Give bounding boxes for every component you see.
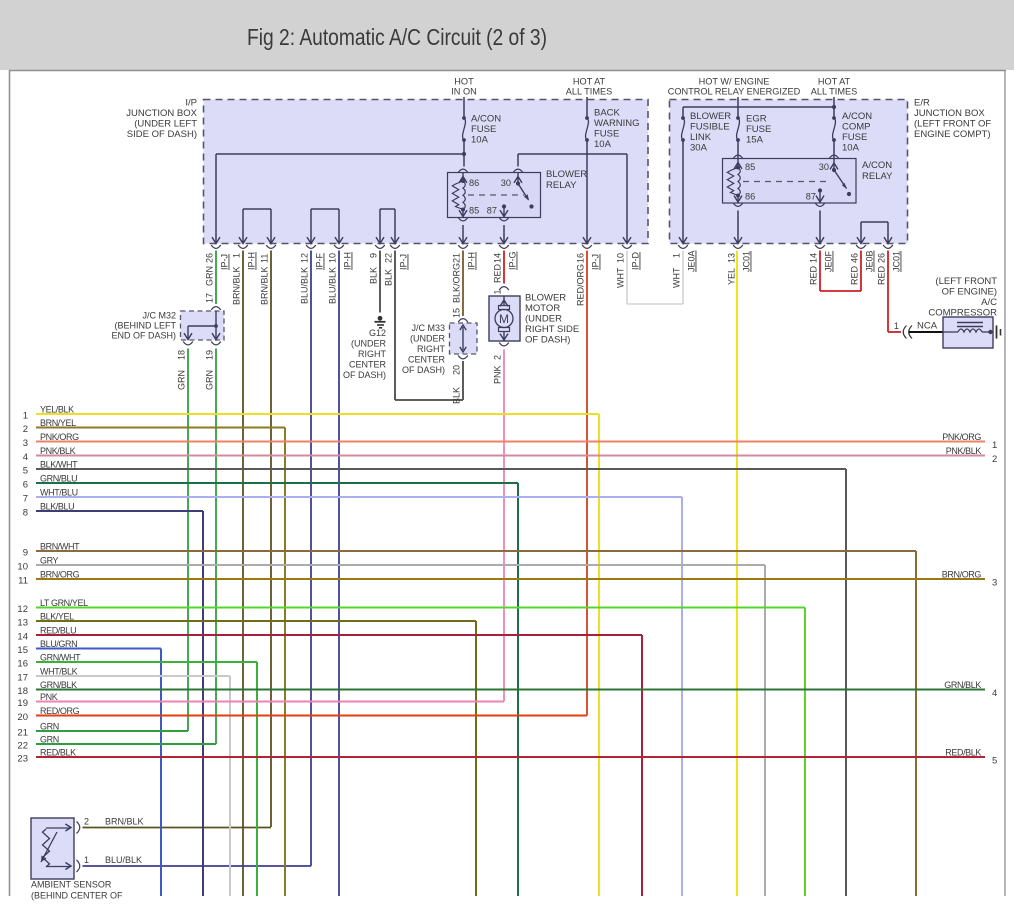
svg-text:RED: RED (493, 263, 503, 283)
relay U1 BLOWER RELAY box (448, 173, 541, 218)
svg-text:A/C: A/C (981, 297, 997, 308)
svg-text:46: 46 (850, 253, 860, 263)
I/P internal link pins 9-22 (379, 209, 381, 244)
svg-text:WHT/BLK: WHT/BLK (40, 667, 78, 677)
connector bump at x=395 (390, 245, 400, 248)
I/P internal link pins 12-10 (310, 209, 312, 244)
diagram frame top border (9, 70, 1006, 72)
node at E/R feed (832, 105, 836, 109)
svg-text:20: 20 (17, 712, 28, 723)
svg-text:RED: RED (850, 265, 860, 285)
relay 30 pivot node (516, 181, 520, 185)
svg-text:26: 26 (877, 253, 887, 263)
wire back warning fuse to pin 16 (586, 140, 588, 244)
acon relay switch contact node (847, 192, 851, 196)
svg-text:YEL/BLK: YEL/BLK (40, 405, 74, 415)
svg-text:BLU/BLK: BLU/BLK (105, 855, 142, 865)
wire row 17 WHT/BLK (36, 675, 230, 677)
svg-text:COMP: COMP (842, 122, 871, 133)
relay switch blade (518, 184, 529, 201)
svg-text:BACK: BACK (594, 108, 621, 119)
svg-text:ENGINE COMPT): ENGINE COMPT) (914, 129, 991, 140)
M32 pin 19 bump (211, 342, 221, 345)
svg-text:BLU/BLK: BLU/BLK (300, 267, 310, 304)
connector bump at x=504 (499, 245, 509, 248)
svg-text:FUSE: FUSE (471, 124, 496, 135)
wire fusible link to pin 1 (682, 140, 684, 244)
svg-text:J/C M32: J/C M32 (142, 311, 176, 321)
connector bump at x=311 (306, 245, 316, 248)
svg-text:PNK/BLK: PNK/BLK (946, 446, 982, 456)
svg-text:PNK/BLK: PNK/BLK (40, 446, 76, 456)
svg-text:IP-J: IP-J (220, 254, 230, 270)
svg-text:1: 1 (84, 855, 89, 865)
svg-text:12: 12 (300, 253, 310, 263)
wire PNK motor to row 19 (503, 350, 505, 702)
svg-text:BRN/WHT: BRN/WHT (40, 542, 80, 552)
svg-text:JE0A: JE0A (687, 250, 697, 272)
relay 87 node and exit arrow (502, 204, 506, 208)
wire row 19 PNK (36, 701, 504, 703)
svg-text:2: 2 (23, 424, 28, 435)
diagram frame right border (1004, 71, 1006, 897)
wire feed to blower fusible link (683, 106, 834, 108)
svg-text:16: 16 (17, 659, 28, 670)
M32 pin 17 bump (211, 307, 221, 310)
svg-text:PNK/ORG: PNK/ORG (40, 432, 79, 442)
wire feed HOT AT ALL TIMES (E/R) (833, 97, 835, 107)
svg-text:11: 11 (260, 254, 270, 263)
svg-text:9: 9 (23, 548, 28, 559)
svg-text:BLK/BLU: BLK/BLU (40, 502, 74, 512)
wire node down to relay 86 (463, 154, 465, 167)
svg-text:RED: RED (877, 265, 887, 285)
svg-text:BLOWER: BLOWER (546, 169, 587, 180)
svg-text:BRN/YEL: BRN/YEL (40, 418, 76, 428)
wire relay 87 to pin 14 (503, 225, 505, 244)
svg-text:13: 13 (17, 618, 28, 629)
motor pin 2 bump (499, 343, 509, 346)
M33 internal double arrow (462, 327, 464, 350)
I/P junction box (204, 100, 649, 244)
wire BLK pin 9 to ground (379, 251, 381, 313)
svg-text:RELAY: RELAY (862, 171, 893, 182)
acon relay 86 exit arrow (737, 196, 739, 204)
I/P exit arrow at x=463 (459, 237, 467, 243)
svg-text:17: 17 (17, 673, 28, 684)
connector bump at x=339 (334, 245, 344, 248)
wire node to pin 26 drop (216, 153, 464, 155)
wire row 21 GRN (36, 730, 188, 732)
wire RED pin 26 to compressor (887, 251, 889, 333)
sensor AMBIENT SENSOR box (31, 818, 74, 879)
svg-text:10A: 10A (842, 143, 860, 154)
header bar (0, 0, 1014, 70)
relay 30 arrow (517, 173, 519, 184)
svg-text:GRN/BLU: GRN/BLU (40, 474, 77, 484)
svg-text:JC01: JC01 (892, 251, 902, 272)
wire row 15 BLU/GRN (36, 648, 161, 650)
connector bump at x=380 (375, 245, 385, 248)
relay 85 bump below (458, 218, 468, 221)
svg-text:IN ON: IN ON (451, 87, 477, 97)
I/P exit arrow at x=380 (376, 237, 384, 243)
svg-text:26: 26 (205, 253, 215, 263)
connector bump at x=683 (678, 245, 688, 248)
svg-text:ALL TIMES: ALL TIMES (811, 87, 857, 97)
svg-text:JUNCTION BOX: JUNCTION BOX (914, 108, 985, 119)
svg-text:85: 85 (469, 206, 479, 216)
svg-text:10: 10 (328, 253, 338, 263)
wire BLK to compressor (909, 331, 943, 333)
wire BLK pin 22 to J/C M33 pin 20 (394, 251, 396, 401)
acon relay 30 arrow (833, 159, 835, 171)
svg-text:I/P: I/P (185, 98, 197, 109)
I/P exit arrow at x=311 (307, 237, 315, 243)
I/P internal link pins 1-11 (242, 209, 244, 244)
svg-text:86: 86 (469, 178, 479, 188)
svg-text:RED/BLU: RED/BLU (40, 626, 76, 636)
wire relay 30 to pin 10 WHT (517, 154, 519, 167)
acon relay switch blade (834, 170, 847, 189)
svg-text:13: 13 (727, 253, 737, 263)
E/R internal link pins 46-26 (860, 222, 862, 244)
wire row 9 BRN/WHT (36, 550, 916, 552)
svg-text:3: 3 (23, 438, 28, 449)
wire row 7 WHT/BLU (36, 496, 682, 498)
wire row 1 YEL/BLK (36, 413, 599, 415)
acon relay coil (736, 166, 740, 170)
svg-text:(UNDER: (UNDER (525, 314, 562, 325)
svg-text:HOT AT: HOT AT (573, 77, 606, 87)
wire row 3 PNK/ORG (36, 441, 985, 443)
svg-text:GRN: GRN (205, 370, 215, 390)
wire row 23 RED/BLK (36, 756, 985, 758)
wire BLU/BLK sensor pin 1 to pin 12 (83, 865, 312, 867)
svg-text:22: 22 (17, 741, 28, 752)
svg-text:IP-F: IP-F (315, 252, 325, 270)
acon relay 85 bump (733, 155, 743, 158)
fuse A/CON COMP FUSE 10A (832, 116, 836, 120)
svg-text:JUNCTION BOX: JUNCTION BOX (126, 108, 197, 119)
E/R exit arrow at x=861 (857, 237, 865, 243)
svg-text:COMPRESSOR: COMPRESSOR (928, 308, 997, 319)
E/R junction box (670, 100, 908, 244)
svg-text:M: M (499, 312, 509, 326)
svg-text:A/CON: A/CON (862, 160, 892, 171)
svg-text:WHT: WHT (672, 267, 682, 288)
svg-text:YEL: YEL (727, 268, 737, 285)
svg-text:87: 87 (487, 206, 497, 216)
svg-text:GRN/BLK: GRN/BLK (40, 680, 77, 690)
svg-text:11: 11 (18, 576, 28, 587)
I/P exit arrow at x=627 (623, 237, 631, 243)
wire BLU/BLK pin 12 to ambient sensor (310, 251, 312, 867)
wire BLK/ORG pin 21 to J/C M33 pin 15 (462, 251, 464, 317)
wire row 2 BRN/YEL (36, 427, 285, 429)
svg-text:86: 86 (745, 192, 755, 202)
svg-text:IP-H: IP-H (343, 252, 353, 270)
svg-text:BRN/BLK: BRN/BLK (260, 266, 270, 305)
acon relay 86 bump below (733, 203, 743, 206)
svg-text:7: 7 (23, 494, 28, 505)
relay 30 connector bump (513, 169, 523, 172)
svg-text:FUSE: FUSE (594, 129, 619, 140)
fuse BACK WARNING FUSE 10A (585, 116, 589, 120)
wire row 6 GRN/BLU (36, 482, 518, 484)
wire row 12 LT GRN/YEL (36, 607, 805, 609)
motor internal symbol (503, 296, 505, 306)
svg-text:1: 1 (23, 411, 28, 422)
acon relay 30 bump (829, 155, 839, 158)
svg-text:RED/ORG: RED/ORG (40, 706, 80, 716)
svg-text:CENTER: CENTER (408, 355, 446, 365)
acon relay 30 pivot node (832, 168, 836, 172)
svg-text:RIGHT: RIGHT (417, 344, 446, 354)
svg-text:RED/ORG: RED/ORG (576, 264, 586, 306)
junction connector J/C M32 box (181, 311, 225, 340)
svg-text:2: 2 (84, 817, 89, 827)
svg-text:E/R: E/R (914, 98, 930, 109)
svg-text:BLK/WHT: BLK/WHT (40, 460, 78, 470)
fuse A/CON FUSE 10A (462, 116, 466, 120)
svg-text:BLK: BLK (384, 269, 394, 286)
svg-text:1: 1 (992, 440, 997, 451)
wire row 18 GRN/BLK (36, 689, 985, 691)
svg-text:CONTROL RELAY ENERGIZED: CONTROL RELAY ENERGIZED (668, 87, 801, 97)
svg-text:4: 4 (23, 452, 28, 463)
wire row 4 PNK/BLK (36, 455, 985, 457)
I/P exit arrow at x=504 (500, 237, 508, 243)
wire GRN M32 pin 19 to row 22 (215, 349, 217, 745)
svg-text:BLK: BLK (369, 267, 379, 284)
connector bump at x=587 (582, 245, 592, 248)
compressor case ground bars (996, 326, 998, 339)
svg-text:SIDE OF DASH): SIDE OF DASH) (127, 129, 197, 140)
svg-text:OF DASH): OF DASH) (402, 365, 445, 375)
svg-text:END OF DASH): END OF DASH) (111, 331, 176, 341)
wire EGR fuse to relay 85 (737, 140, 739, 159)
connector bump at x=861 (856, 245, 866, 248)
svg-text:RELAY: RELAY (546, 180, 577, 191)
M32 internal wire (215, 311, 217, 338)
svg-text:8: 8 (23, 508, 28, 519)
connector bump at x=216 (211, 245, 221, 248)
compressor connector bump (903, 326, 906, 339)
svg-text:A/CON: A/CON (842, 111, 872, 122)
svg-text:BLU/BLK: BLU/BLK (328, 267, 338, 304)
I/P exit arrow at x=587 (583, 237, 591, 243)
svg-text:A/CON: A/CON (471, 114, 501, 125)
svg-text:GRN: GRN (177, 370, 187, 390)
svg-text:10: 10 (17, 562, 28, 573)
motor M1 BLOWER MOTOR box (489, 296, 520, 341)
svg-text:18: 18 (177, 350, 187, 360)
svg-text:14: 14 (17, 632, 28, 643)
motor pin 1 bump (499, 287, 509, 290)
relay 85 exit arrow (462, 210, 464, 218)
E/R exit arrow at x=820 (816, 237, 824, 243)
node at fuse output (462, 152, 466, 156)
E/R exit arrow at x=738 (734, 237, 742, 243)
wire E/R feed to A/CON COMP fuse (833, 107, 835, 118)
wire fuse to junction node (463, 140, 465, 154)
svg-text:HOT: HOT (454, 77, 474, 87)
svg-text:10: 10 (616, 253, 626, 263)
svg-text:J/C M33: J/C M33 (411, 323, 445, 333)
svg-text:AMBIENT SENSOR: AMBIENT SENSOR (31, 880, 112, 890)
M33 pin 20 bump (458, 356, 468, 359)
svg-text:FUSIBLE: FUSIBLE (690, 122, 730, 133)
svg-text:4: 4 (992, 688, 997, 699)
svg-text:BRN/ORG: BRN/ORG (40, 570, 80, 580)
wire BLU/BLK pin 10 down (338, 251, 340, 897)
wire row 10 GRY (36, 564, 765, 566)
svg-text:BRN/BLK: BRN/BLK (105, 817, 144, 827)
svg-text:FUSE: FUSE (842, 132, 867, 143)
svg-text:9: 9 (369, 253, 379, 258)
svg-text:85: 85 (745, 162, 755, 172)
svg-text:5: 5 (992, 756, 997, 767)
acon relay 87 bump below (815, 203, 825, 206)
I/P exit arrow at x=271 (267, 237, 275, 243)
svg-text:(LEFT FRONT: (LEFT FRONT (935, 276, 997, 287)
connector bump at x=243 (238, 245, 248, 248)
relay switch contact node (529, 204, 533, 208)
svg-text:OF DASH): OF DASH) (343, 370, 386, 380)
relay U2 A/CON RELAY box (723, 159, 857, 204)
svg-text:1: 1 (232, 253, 242, 258)
svg-text:LT GRN/YEL: LT GRN/YEL (40, 598, 88, 608)
svg-text:LINK: LINK (690, 132, 712, 143)
acon relay 87 node and exit arrow (818, 188, 822, 192)
connector bump at x=888 (883, 245, 893, 248)
relay 86 arrow (462, 173, 464, 182)
svg-text:2: 2 (493, 355, 503, 360)
svg-text:IP-D: IP-D (631, 251, 641, 270)
svg-text:EGR: EGR (746, 114, 767, 125)
E/R exit arrow at x=683 (679, 237, 687, 243)
svg-text:16: 16 (576, 253, 586, 263)
wire feed to BACK WARNING fuse (586, 97, 588, 118)
wire acon relay 87 to pin 14 (819, 211, 821, 244)
wire row 8 BLK/BLU (36, 510, 203, 512)
svg-text:BLU/GRN: BLU/GRN (40, 639, 77, 649)
svg-text:BLOWER: BLOWER (690, 111, 731, 122)
svg-text:14: 14 (809, 253, 819, 263)
svg-text:RIGHT SIDE: RIGHT SIDE (525, 324, 579, 335)
svg-text:JC01: JC01 (742, 251, 752, 272)
svg-text:OF ENGINE): OF ENGINE) (942, 287, 997, 298)
svg-text:3: 3 (992, 578, 997, 589)
wire row 5 BLK/WHT (36, 468, 846, 470)
wire RED/ORG pin 16 to row 20 (586, 251, 588, 716)
svg-text:HOT AT: HOT AT (818, 77, 851, 87)
svg-text:19: 19 (205, 350, 215, 360)
svg-text:GRY: GRY (40, 556, 59, 566)
acon relay armature dashed link (743, 181, 830, 183)
ground G12 (378, 316, 383, 321)
relay armature dashed link (468, 194, 524, 196)
svg-text:GRN/WHT: GRN/WHT (40, 653, 81, 663)
svg-text:G12: G12 (369, 328, 386, 338)
svg-text:Fig 2: Automatic A/C Circuit (: Fig 2: Automatic A/C Circuit (2 of 3) (247, 24, 547, 50)
svg-text:RIGHT: RIGHT (358, 349, 387, 359)
svg-text:RED/BLK: RED/BLK (40, 748, 76, 758)
svg-text:IP-G: IP-G (508, 251, 518, 270)
svg-text:WARNING: WARNING (594, 118, 640, 129)
wire BRN/BLK pin 1 down (242, 251, 244, 897)
wire feed HOT W/ENGINE to EGR fuse (737, 97, 739, 118)
svg-text:21: 21 (17, 728, 28, 739)
wire row 22 GRN (36, 743, 216, 745)
sensor pin 1 bump (77, 860, 80, 872)
svg-text:JE0F: JE0F (824, 250, 834, 272)
svg-text:BRN/BLK: BRN/BLK (232, 266, 242, 305)
svg-text:23: 23 (17, 754, 28, 765)
wire acon relay 86 to pin 13 (737, 211, 739, 244)
sensor internal leads (46, 827, 70, 829)
svg-text:WHT/BLU: WHT/BLU (40, 488, 78, 498)
I/P exit arrow at x=216 (212, 237, 220, 243)
svg-text:(UNDER LEFT: (UNDER LEFT (134, 119, 197, 130)
svg-text:BLK/YEL: BLK/YEL (40, 612, 74, 622)
svg-text:RED/BLK: RED/BLK (945, 748, 981, 758)
svg-text:6: 6 (23, 480, 28, 491)
svg-text:GRN: GRN (40, 735, 59, 745)
connector bump at x=738 (733, 245, 743, 248)
sensor pin 2 bump (77, 822, 80, 834)
compressor box A/C COMPRESSOR (943, 317, 993, 348)
svg-text:12: 12 (17, 604, 28, 615)
svg-text:BRN/ORG: BRN/ORG (942, 570, 982, 580)
svg-text:BLK/ORG: BLK/ORG (452, 263, 462, 303)
svg-text:FUSE: FUSE (746, 124, 771, 135)
svg-text:5: 5 (23, 466, 28, 477)
svg-text:1: 1 (493, 289, 503, 294)
svg-text:22: 22 (384, 253, 394, 263)
wire BRN/BLK pin 11 to ambient sensor (270, 251, 272, 828)
svg-text:30A: 30A (690, 143, 708, 154)
svg-text:CENTER: CENTER (349, 360, 387, 370)
relay 86 connector bump (458, 169, 468, 172)
svg-text:(LEFT FRONT OF: (LEFT FRONT OF (914, 119, 991, 130)
fuse EGR FUSE 15A (736, 116, 740, 120)
wire row 11 BRN/ORG (36, 578, 985, 580)
svg-text:IP-H: IP-H (247, 252, 257, 270)
E/R exit arrow at x=888 (884, 237, 892, 243)
svg-text:15A: 15A (746, 135, 764, 146)
svg-text:10A: 10A (471, 135, 489, 146)
svg-text:1: 1 (894, 321, 899, 331)
svg-text:PNK: PNK (40, 692, 58, 702)
M32 pin 18 bump (183, 342, 193, 345)
svg-text:OF DASH): OF DASH) (525, 335, 570, 346)
svg-text:BLOWER: BLOWER (525, 293, 566, 304)
wire RED pin 14 JE0F loop (819, 251, 821, 292)
svg-text:15: 15 (17, 645, 28, 656)
svg-text:RED: RED (809, 265, 819, 285)
wire row 20 RED/ORG (36, 715, 587, 717)
svg-text:19: 19 (17, 698, 28, 709)
wire GRN pin 26 to J/C M32 (215, 251, 217, 305)
fuse BLOWER FUSIBLE LINK 30A (681, 116, 685, 120)
svg-text:1: 1 (672, 253, 682, 258)
relay 87 bump below (499, 218, 509, 221)
svg-text:20: 20 (452, 365, 462, 375)
svg-text:(UNDER: (UNDER (410, 334, 445, 344)
wire row 13 BLK/YEL (36, 620, 476, 622)
